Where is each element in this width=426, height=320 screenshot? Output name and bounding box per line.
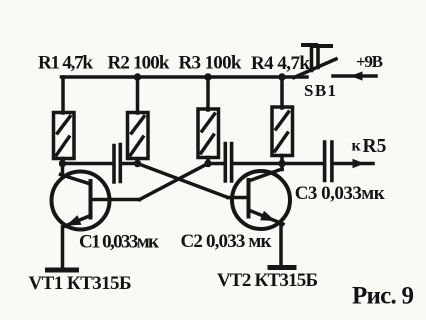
capacitor C3 plates [325,142,332,181]
wire: R4 top lead [280,79,284,109]
node: R2 bottom junction [134,160,141,167]
svg-text:SB1: SB1 [304,81,336,100]
ground: VT2 emitter [270,265,294,270]
transistor VT2 collector wire [280,164,284,170]
svg-text:R5: R5 [363,136,387,157]
transistor VT1 circle [52,172,110,230]
svg-text:+9В: +9В [356,52,383,71]
svg-text:C3 0,033мк: C3 0,033мк [295,183,385,204]
arrow: output to R5 [353,159,365,168]
svg-text:R4 4,7k: R4 4,7k [251,53,310,74]
node: R2 to rail junction [134,73,141,80]
switch SB1 lever [294,59,336,78]
arrow: +9V supply [351,71,363,80]
wire: R3 bottom lead [206,158,210,164]
svg-text:C2 0,033 мк: C2 0,033 мк [181,231,272,252]
wire: R4 bottom lead [280,156,284,164]
transistor VT2 emitter diagonal [249,210,284,224]
svg-text:R2 100k: R2 100k [108,53,170,74]
node: VT1 collector junction [59,160,66,167]
transistor VT1 emitter wire [61,227,65,268]
switch SB1 button stem right [316,47,320,68]
wire: R2 bottom lead [136,159,140,164]
transistor VT2 base bar [247,180,251,217]
wire: +9V top rail [62,75,308,79]
transistor VT2 base lead [228,196,247,200]
wire: C3 to R5 output lead [334,162,374,166]
resistor R2 hatch marks [131,117,145,156]
wire: R2 top lead [136,79,140,114]
capacitor C1 plates [114,145,120,183]
svg-text:к: к [352,138,362,155]
transistor VT2 emitter wire [279,225,283,266]
transistor VT1 collector diagonal [61,175,91,185]
transistor VT1 emitter arrow [66,215,81,225]
wire: VT1 base to R3 bottom node (cross coupling) [140,164,209,200]
wire: R3 top lead [206,79,210,111]
resistor R3 body [198,109,219,158]
svg-text:R1 4,7k: R1 4,7k [38,53,93,74]
wire: R1 top lead [61,77,65,113]
transistor VT2 emitter arrow [260,211,275,221]
node: R4 bottom (VT2 collector) junction [278,160,285,167]
wire: C1 to R2 bottom node [122,162,138,166]
svg-text:Рис. 9: Рис. 9 [352,283,414,310]
resistor R2 body [128,113,149,159]
transistor VT2 collector diagonal [249,169,283,181]
switch SB1 button stem left [310,47,314,71]
transistor VT1 emitter diagonal [64,216,91,227]
svg-text:R3 100k: R3 100k [179,53,242,74]
wire: VT1 collector node to C1 [63,162,113,166]
switch SB1 button cap left [303,43,316,47]
resistor R4 hatch marks [275,112,289,151]
wire: R1 bottom lead [61,159,65,164]
transistor VT2 circle [232,171,290,229]
ground: VT1 emitter [48,268,77,273]
node: R3 to rail junction [204,73,211,80]
wire: switch to +9V supply [333,74,376,78]
resistor R1 body [54,113,75,159]
node: R4 to rail junction [278,73,285,80]
svg-text:C1 0,033мк: C1 0,033мк [79,232,159,253]
transistor VT1 collector wire [61,164,65,176]
transistor VT1 base lead [91,198,140,202]
wire: C2 to R4 bottom node and on to C3 [233,162,323,166]
svg-text:VT2 КТ315Б: VT2 КТ315Б [217,270,318,291]
wire: R2 bottom node to VT2 base (cross coupling) [138,164,229,198]
resistor R1 hatch marks [57,117,71,156]
switch SB1 button cap right [314,44,331,48]
node: R3 bottom junction [204,160,211,167]
resistor R4 body [272,107,293,156]
svg-text:VT1 КТ315Б: VT1 КТ315Б [29,273,132,294]
capacitor C2 plates [225,144,231,182]
transistor VT1 base bar [89,181,93,218]
wire: R3 bottom node to C2 [208,162,224,166]
resistor R3 hatch marks [201,114,215,153]
